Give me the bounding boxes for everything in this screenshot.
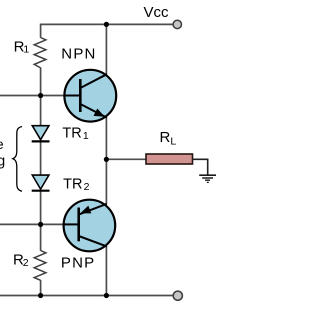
svg-text:TR: TR [62, 126, 81, 142]
svg-text:TR: TR [63, 176, 82, 192]
svg-text:R: R [160, 129, 171, 146]
svg-text:1: 1 [23, 44, 29, 56]
svg-text:Biasing: Biasing [0, 154, 5, 170]
svg-text:Vcc: Vcc [144, 4, 170, 21]
svg-text:L: L [170, 136, 176, 148]
svg-text:PNP: PNP [61, 254, 95, 271]
svg-text:1: 1 [83, 130, 89, 142]
svg-text:NPN: NPN [61, 46, 96, 63]
svg-text:2: 2 [84, 181, 90, 193]
svg-text:2: 2 [23, 257, 29, 269]
svg-text:Diode: Diode [0, 136, 4, 152]
